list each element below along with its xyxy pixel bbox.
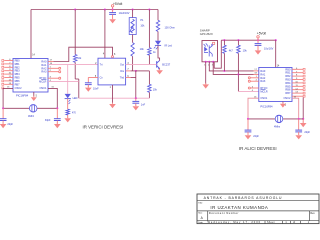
ground (555 pin1) [109, 103, 116, 109]
svg-text:RB3: RB3 [15, 69, 21, 73]
connector J1 (9-pin, transmitter) [2, 59, 13, 89]
svg-text:+5Volt: +5Volt [113, 2, 122, 6]
no-connect circle RA2 (receiver) [248, 77, 250, 79]
junction dot crystal left (receiver) [247, 118, 249, 120]
svg-text:RA0: RA0 [260, 69, 266, 73]
wire 555 RST pin 4 [103, 10, 105, 59]
svg-text:Wednesday, May 17, 2000: Wednesday, May 17, 2000 [208, 220, 262, 224]
svg-text:RA3: RA3 [41, 70, 47, 74]
wire OSC2 to crystal [3, 87, 13, 109]
wire +5V rail (receiver) [221, 39, 275, 41]
ground (C2) [85, 86, 92, 92]
capacitor C4 22pF [0, 108, 14, 126]
wire OSC1 to crystal [48, 87, 57, 109]
junction dot crystal mid (receiver) [298, 118, 300, 120]
wire RA0 to 555 VCC pin 8 [48, 47, 116, 62]
svg-text:OSC1: OSC1 [39, 86, 47, 90]
wire P1 to R2 [132, 35, 134, 43]
svg-text:ANTRAK - BARBAROS ASUROGLU: ANTRAK - BARBAROS ASUROGLU [204, 196, 283, 200]
capacitor C6 22pF [245, 119, 260, 138]
title block Size [198, 213, 203, 220]
resistor R5 100 Ohm [156, 20, 174, 31]
svg-text:RB5: RB5 [15, 76, 21, 80]
wire crystal net [3, 107, 57, 109]
wire R5 to D1 [157, 32, 159, 41]
module pin dot 3 [212, 61, 214, 63]
power symbol +5Volt (receiver) [257, 32, 266, 41]
junction dot crystal right [56, 107, 58, 109]
wire J2 pin9 down [302, 98, 304, 119]
svg-text:OSC1: OSC1 [260, 96, 268, 100]
module pin dot 1 [205, 61, 207, 63]
IC U1 PIC16F84 (transmitter) [13, 59, 48, 93]
capacitor C2 10nF [85, 83, 99, 91]
wire MCLR net [48, 80, 79, 82]
capacitor C8 10u/16V [255, 40, 274, 50]
wire DIS to R6 [136, 71, 150, 84]
label U1 PIC16F84 [16, 94, 29, 98]
svg-text:Out: Out [120, 64, 124, 67]
junction dot rail/R7 [223, 39, 225, 41]
svg-text:RTCC: RTCC [260, 86, 267, 90]
junction dot DIS node [135, 70, 137, 72]
wire D1 to Q1 collector [158, 45, 160, 60]
svg-text:RA2: RA2 [41, 66, 47, 70]
resistor R3 470 [66, 109, 77, 115]
ground (U4 VSS) [280, 102, 286, 107]
ground (C5) [54, 123, 61, 129]
svg-text:RA3: RA3 [260, 79, 266, 83]
wire RA3 stub [48, 70, 59, 72]
wire U4 VDD pin 14 [276, 40, 280, 67]
wire R6 to cap node [148, 92, 150, 98]
LED D2 [65, 94, 78, 104]
junction dot rail/R1 [74, 8, 76, 10]
svg-text:OSC2: OSC2 [283, 96, 291, 100]
ground (C1) [109, 18, 116, 24]
svg-text:Date:: Date: [198, 221, 203, 224]
resistor R7 4k7 [223, 40, 234, 71]
module pin labels [204, 64, 214, 66]
title block sheet [267, 221, 310, 224]
crystal Y1 4Mhz [28, 105, 37, 118]
svg-text:RB4: RB4 [15, 72, 21, 76]
title block Document Number [209, 211, 239, 215]
wire trigger net [79, 97, 150, 99]
svg-text:22pF: 22pF [304, 131, 310, 134]
svg-text:IR VERICI DEVRESI: IR VERICI DEVRESI [83, 125, 124, 130]
IC U2 555 timer [98, 58, 126, 85]
wire RTCC stub (receiver) [250, 86, 259, 88]
wire D2 to R3 [67, 99, 69, 110]
pin labels RA0/RA1 (receiver) [254, 69, 257, 75]
wire to ground (J2 pin9) [302, 119, 304, 123]
connector J2 (receiver) [292, 68, 305, 94]
svg-text:RB7: RB7 [15, 82, 21, 86]
junction dot rail/+5V (receiver) [257, 39, 259, 41]
junction dot rail/R8 [237, 39, 239, 41]
wire OSC2 to crystal (receiver) [292, 96, 299, 119]
svg-text:OSC2: OSC2 [15, 86, 23, 90]
title block date [198, 220, 261, 224]
no-connect circle RTCC [59, 77, 61, 79]
wire Q1 emitter to ground [159, 68, 161, 69]
label U4 PIC16F84 [260, 104, 273, 108]
svg-text:RB0: RB0 [285, 67, 291, 71]
wire 555 OUT to Q1 base [126, 63, 157, 65]
svg-text:RB7: RB7 [285, 91, 291, 95]
wire U1 VSS pin 5 [34, 92, 38, 98]
svg-text:RB5: RB5 [285, 84, 291, 88]
pin circle 555 pin 8 [112, 56, 114, 58]
wire 555 GND pin 1 [110, 85, 113, 103]
wire RA2 stub (receiver) [250, 76, 259, 78]
ground (C3) [133, 105, 140, 111]
IR LED D1 [154, 41, 173, 50]
wire module GND pin [205, 62, 207, 84]
svg-text:BC237: BC237 [162, 62, 170, 66]
svg-text:RA1: RA1 [260, 72, 266, 76]
wire +5V rail (transmitter) [31, 9, 158, 11]
resistor R4 1k [148, 10, 157, 65]
connector J2 ground pin [292, 95, 305, 97]
no-connect circle RTCC (receiver) [248, 87, 250, 89]
wire crystal net (receiver) [248, 118, 303, 120]
wire 555 DIS [126, 69, 136, 71]
title block Title label [198, 201, 203, 204]
wire RA1 net [238, 73, 258, 75]
svg-text:Sheet: Sheet [267, 221, 275, 224]
wire rail corner to R5 [157, 10, 159, 21]
pin label 4 MCLR (receiver) [252, 90, 254, 92]
wire RA2 stub [48, 67, 59, 69]
resistor R2 10k [131, 43, 144, 57]
crystal Y2 4Mhz [274, 115, 283, 128]
no-connect circle RA3 [59, 71, 61, 73]
wire OSC1 to crystal (receiver) [248, 96, 259, 119]
junction dot R7/RA0 [223, 70, 225, 72]
svg-text:RB6: RB6 [15, 79, 21, 83]
wire MCLR (receiver) [238, 90, 258, 92]
junction dot rail/555 pin4 [104, 8, 106, 10]
ground (C4) [0, 123, 6, 129]
svg-text:RB6: RB6 [285, 88, 291, 92]
title block header [204, 196, 283, 200]
svg-text:22pF: 22pF [7, 123, 13, 126]
svg-text:10u/16V: 10u/16V [264, 48, 274, 51]
capacitor C5 33pF [45, 108, 61, 123]
svg-text:RB4: RB4 [285, 81, 291, 85]
svg-text:IR ALICI DEVRESI: IR ALICI DEVRESI [239, 146, 277, 151]
wire module pin3 to RA1 net [213, 62, 238, 75]
svg-text:4Mhz: 4Mhz [274, 125, 281, 128]
wire R3 to ground [67, 115, 69, 118]
wire RTCC stub [48, 76, 59, 78]
wire RA1 to 555 TRI [48, 63, 98, 65]
junction dot crystal right end [302, 118, 304, 120]
junction dot rail/R4 [148, 8, 150, 10]
resistor R1 10k (pullup) [74, 10, 82, 63]
svg-text:MCLR: MCLR [39, 80, 46, 84]
title block frame [197, 194, 319, 224]
caption IR ALICI DEVRESI [239, 146, 277, 151]
wire LED branch [67, 65, 69, 94]
junction dot R8/RA1 [237, 73, 239, 75]
wire module case pin [213, 62, 215, 68]
svg-text:MCLR: MCLR [260, 89, 267, 93]
svg-text:Document Number: Document Number [209, 211, 239, 215]
svg-text:RB2: RB2 [285, 74, 291, 78]
caption IR VERICI DEVRESI [83, 125, 124, 130]
svg-text:Thd: Thd [120, 77, 125, 80]
wire module OUT to RA0 [209, 62, 258, 71]
wire RA3 stub (receiver) [250, 80, 259, 82]
svg-text:10uF/16V: 10uF/16V [119, 12, 130, 15]
svg-text:4Mhz: 4Mhz [28, 115, 35, 118]
svg-text:IR UZAKTAN KUMANDA: IR UZAKTAN KUMANDA [210, 205, 268, 210]
svg-text:RA0: RA0 [41, 60, 47, 64]
svg-text:RA1: RA1 [41, 63, 47, 67]
capacitor C7 22pF [295, 119, 310, 135]
svg-text:33pF: 33pF [45, 119, 51, 122]
svg-text:100 Ohm: 100 Ohm [165, 26, 175, 29]
svg-text:LED: LED [73, 97, 78, 100]
svg-text:IR Led: IR Led [165, 44, 173, 47]
junction dot rail/U4 pin14 [275, 39, 277, 41]
capacitor C3 1nF [132, 98, 145, 106]
ground (C7) [295, 134, 302, 140]
no-connect circle RA3 (receiver) [248, 80, 250, 82]
svg-text:RB2: RB2 [15, 65, 21, 69]
junction dot trigger/C3 [135, 97, 137, 99]
svg-text:1nF: 1nF [141, 104, 146, 107]
wire VDD pin 14 (U1) [31, 10, 35, 59]
svg-text:RB0: RB0 [15, 59, 21, 63]
svg-text:Tri: Tri [100, 64, 103, 67]
svg-text:PIC16F84: PIC16F84 [16, 94, 29, 98]
ground (C8) [255, 49, 262, 55]
svg-text:+5Volt: +5Volt [257, 32, 266, 36]
capacitor C1 10uF/16V [109, 10, 130, 19]
potentiometer P1 10k [129, 10, 145, 35]
ground (module) [202, 83, 209, 89]
svg-text:GP1U52X: GP1U52X [200, 32, 213, 36]
wire 555 CV pin 5 [88, 76, 98, 83]
wire R1 to MCLR node [75, 62, 79, 98]
svg-text:Title:: Title: [198, 201, 203, 204]
svg-text:4k7: 4k7 [229, 50, 234, 53]
svg-text:PIC16F84: PIC16F84 [260, 104, 273, 108]
transistor Q1 BC237 [157, 60, 171, 70]
ground (C6) [245, 134, 252, 140]
module pin dot 2 [208, 61, 210, 63]
wire U4 VSS pin 5 [283, 102, 287, 107]
resistor R8 10k [237, 40, 248, 91]
svg-text:10nF: 10nF [93, 87, 99, 90]
resistor R6 10k [148, 84, 158, 92]
svg-text:22pF: 22pF [253, 135, 259, 138]
ground (Q1 emitter) [156, 69, 163, 75]
svg-text:RB3: RB3 [285, 78, 291, 82]
svg-text:of: of [293, 221, 295, 224]
junction dot rail/C1 [112, 8, 114, 10]
title block title [210, 205, 268, 210]
wire R2 to Dis node [132, 56, 134, 71]
ground (R3) [64, 117, 71, 123]
svg-text:RB1: RB1 [15, 62, 21, 66]
ground (U1 VSS) [31, 96, 37, 101]
svg-text:RA2: RA2 [260, 76, 266, 80]
power symbol +5Volt (transmitter) [111, 2, 122, 10]
wire 555 THD [126, 76, 136, 78]
no-connect circle RA2 [59, 67, 61, 69]
IR receiver module U3 SHARP GP1U52X [200, 29, 218, 62]
ground (J2) [300, 122, 307, 128]
wire rail to module case [214, 40, 221, 68]
title block Rev [310, 212, 315, 215]
junction dot rail/P1 [132, 8, 134, 10]
junction dot crystal left [2, 107, 4, 109]
IC U4 PIC16F84 (receiver) [259, 67, 292, 101]
wire DIS-THD-node vertical [135, 71, 137, 98]
svg-text:RB1: RB1 [285, 71, 291, 75]
